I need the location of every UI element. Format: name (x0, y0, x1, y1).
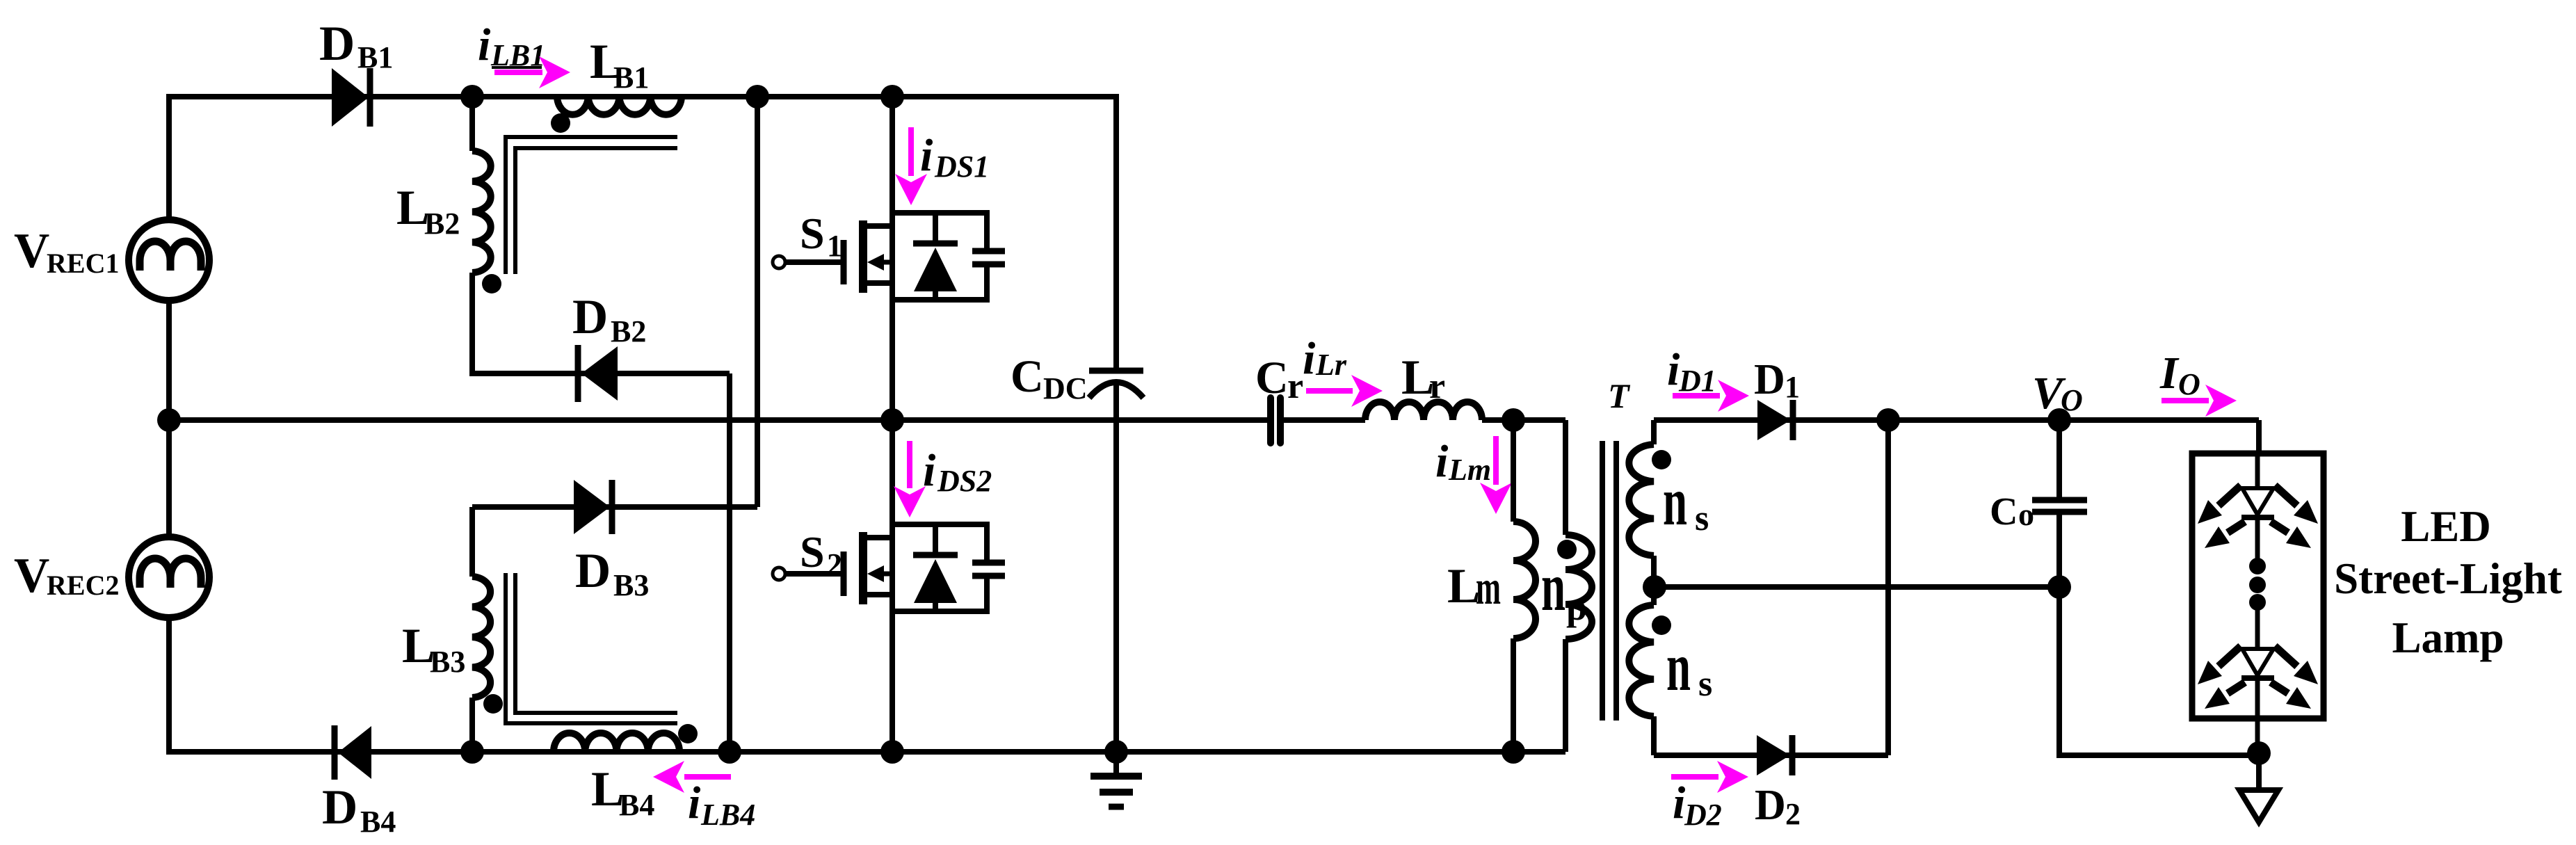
svg-text:D: D (572, 290, 608, 344)
svg-text:B3: B3 (613, 568, 649, 602)
wire top rail (166, 94, 1119, 99)
inductor Lm (1513, 420, 1536, 752)
label iDS2 (923, 445, 992, 498)
current arrow iLB1 (494, 56, 570, 88)
svg-text:C: C (1255, 353, 1289, 403)
svg-text:i: i (478, 19, 491, 70)
transformer primary np (1565, 420, 1592, 752)
S2 gate terminal (773, 568, 785, 580)
wire to LED lamp (2256, 420, 2262, 453)
wire middle rail (169, 417, 1268, 423)
polarity dot ns upper (1652, 450, 1671, 469)
wire CDC lower (1113, 383, 1119, 752)
current arrow iDS2 (894, 441, 926, 517)
capacitor Co (2032, 420, 2259, 755)
svg-text:D1: D1 (1678, 364, 1716, 398)
label LED Street-Light Lamp (2334, 502, 2562, 662)
label LB4 (591, 762, 654, 822)
label DB4 (322, 780, 396, 839)
wire bottom rail (166, 749, 1565, 755)
wire DB3 output up to top rail (755, 97, 760, 507)
node junction Co bottom (2047, 575, 2071, 599)
wire left column lower (166, 620, 172, 755)
wire CDC upper (1113, 97, 1119, 371)
diode DB3 (574, 480, 612, 534)
node junction LB3 bottom rail (460, 740, 484, 764)
wire DB2 output down to bottom rail (727, 373, 732, 752)
label LB3 (402, 619, 465, 679)
svg-text:V: V (14, 549, 49, 603)
svg-text:p: p (1566, 586, 1587, 628)
polarity dot LB1 (551, 113, 570, 133)
LED 2 emission arrows (2198, 646, 2318, 709)
inductor LB4 (554, 733, 679, 752)
inductor LB2 (472, 151, 491, 273)
svg-text:n: n (1541, 548, 1565, 625)
svg-text:2: 2 (1785, 797, 1801, 831)
label CDC (1011, 351, 1088, 405)
wire Cr to Lr (1283, 417, 1365, 423)
label VREC1 (14, 224, 119, 279)
node junction Lr/Lm (1502, 408, 1525, 432)
LED 1 (2241, 488, 2274, 566)
LED 2 (2241, 649, 2274, 753)
svg-text:i: i (688, 778, 701, 828)
transformer core T (1602, 441, 1616, 721)
wire left column upper (166, 94, 172, 218)
svg-text:REC1: REC1 (47, 248, 119, 279)
svg-text:Lr: Lr (1315, 348, 1347, 382)
svg-text:B4: B4 (360, 805, 396, 839)
label ns upper (1663, 462, 1709, 540)
svg-text:O: O (2061, 383, 2083, 417)
S1 drain stub (866, 223, 892, 229)
svg-text:DS2: DS2 (937, 464, 992, 498)
polarity dot LB2 (482, 274, 501, 293)
transformer secondary ns lower (1629, 587, 1654, 755)
polarity dot np (1557, 540, 1577, 559)
svg-text:D: D (1754, 356, 1785, 403)
wire S1 drain (889, 97, 895, 213)
wire DB3 row (472, 504, 757, 510)
diode D1 (1757, 400, 1793, 440)
svg-text:C: C (1011, 351, 1044, 402)
capacitor CDC (1089, 97, 1143, 752)
S2 body diode (933, 524, 938, 611)
wire LB3 branch upper (469, 507, 475, 577)
svg-text:n: n (1663, 462, 1687, 540)
wire D1 D2 join (1885, 420, 1891, 755)
S2 drain stub (866, 535, 892, 540)
label DB3 (575, 544, 649, 602)
label Co (1990, 490, 2034, 533)
node junction Lm bottom rail (1502, 740, 1525, 764)
ground output (2239, 753, 2278, 822)
svg-text:DS1: DS1 (934, 150, 989, 184)
polarity dot LB4 (678, 724, 698, 743)
LED lamp box (2192, 453, 2324, 718)
node junction lamp bottom (2247, 741, 2271, 765)
svg-text:2: 2 (827, 547, 842, 581)
svg-text:i: i (920, 130, 933, 181)
label Lr (1401, 351, 1445, 406)
source VREC1 (129, 220, 209, 300)
wire lamp internal top (2255, 453, 2260, 488)
label S2 (800, 527, 842, 581)
label Cr (1255, 353, 1303, 406)
S1 body arrow (880, 260, 892, 265)
label VREC2 (14, 549, 119, 603)
core of coupled inductor LB3/LB4 (506, 573, 677, 723)
svg-text:C: C (1990, 490, 2018, 533)
node junction sources mid rail (157, 408, 181, 432)
wire center tap (1655, 584, 2059, 590)
svg-text:LB4: LB4 (700, 798, 755, 832)
label ns lower (1666, 628, 1712, 705)
svg-text:S: S (800, 209, 825, 258)
svg-text:o: o (2018, 497, 2034, 532)
svg-text:r: r (1287, 367, 1303, 406)
wire lamp internal middle (2255, 602, 2260, 649)
inductor Lr (1365, 402, 1482, 420)
label Lm (1447, 559, 1501, 615)
label VO (2032, 368, 2083, 419)
svg-text:B1: B1 (613, 61, 649, 95)
label DB2 (572, 290, 646, 348)
S1 channel bar (859, 220, 867, 293)
S1 source stub (866, 280, 892, 286)
current arrow iLB4 (653, 761, 731, 793)
LED string dots (2249, 558, 2266, 611)
node junction S2 source bottom rail (880, 740, 904, 764)
wire LB3 lower (469, 698, 475, 752)
capacitor Cr (1271, 398, 1365, 443)
svg-text:Lm: Lm (1448, 453, 1491, 487)
polarity dot ns lower (1652, 615, 1671, 635)
ground (1090, 752, 1142, 807)
svg-text:REC2: REC2 (47, 570, 119, 601)
current arrow iLm (1480, 436, 1512, 514)
svg-text:B4: B4 (619, 788, 654, 822)
current arrow iD1 (1673, 380, 1749, 412)
label iLr (1303, 333, 1347, 384)
svg-text:B2: B2 (424, 207, 460, 241)
svg-text:V: V (14, 224, 49, 278)
node junction mid-S1S2 (880, 408, 904, 432)
svg-text:B3: B3 (430, 645, 465, 679)
node junction center tap (1643, 575, 1666, 599)
S2 snubber box (892, 524, 987, 611)
wire S2 source (889, 611, 895, 752)
current arrow iDS1 (895, 127, 927, 205)
svg-text:Lamp: Lamp (2392, 613, 2504, 662)
wire secondary top (1654, 417, 2259, 423)
svg-text:1: 1 (1785, 370, 1800, 404)
svg-text:i: i (923, 445, 936, 496)
svg-text:D: D (319, 17, 355, 71)
svg-text:D2: D2 (1684, 798, 1722, 832)
svg-text:m: m (1476, 561, 1501, 615)
wire S2 drain (889, 420, 895, 524)
svg-text:S: S (800, 527, 825, 577)
label np (1541, 548, 1587, 628)
S1 parallel capacitor (972, 251, 1005, 264)
S1 body diode (933, 213, 938, 300)
current arrow iLr (1306, 375, 1383, 407)
S2 source stub (866, 592, 892, 597)
svg-text:D: D (322, 780, 357, 835)
node junction top-DB3 (746, 85, 769, 108)
diode DB1 (332, 68, 370, 127)
S2 parallel capacitor (972, 563, 1005, 576)
inductor LB1 (557, 97, 682, 115)
S1 snubber box (892, 213, 987, 300)
label IO (2159, 348, 2200, 401)
label LB2 (396, 181, 460, 241)
svg-text:O: O (2178, 367, 2200, 401)
svg-text:D: D (575, 544, 611, 598)
S2 body arrow (880, 572, 892, 577)
polarity dot LB3 (483, 694, 503, 714)
node junction D1/D2 (1876, 408, 1900, 432)
node junction ground bottom rail (1104, 740, 1128, 764)
svg-text:T: T (1608, 376, 1631, 415)
label iDS1 (920, 130, 989, 184)
svg-text:s: s (1698, 664, 1712, 704)
wire LB2 to DB2 (472, 273, 730, 373)
wire Lr to node (1482, 417, 1565, 423)
svg-text:Street-Light: Street-Light (2334, 554, 2562, 603)
S2 gate bar (841, 552, 847, 596)
svg-text:LED: LED (2401, 502, 2491, 551)
label iD2 (1673, 778, 1722, 832)
S1 gate terminal (773, 256, 785, 268)
source VREC2 (129, 537, 209, 618)
svg-text:DC: DC (1043, 371, 1088, 405)
diode DB2 (578, 345, 618, 402)
node junction VO (2047, 408, 2071, 432)
label D2 (1755, 782, 1801, 831)
svg-text:i: i (1435, 436, 1449, 487)
label LB1 (590, 35, 649, 95)
diode DB4 (335, 725, 371, 780)
svg-text:D: D (1755, 782, 1786, 829)
node junction top-LB2 (460, 85, 484, 108)
S1 gate bar (841, 240, 847, 284)
inductor LB3 (472, 577, 490, 698)
wire D2 row (1654, 753, 1888, 758)
current arrow IO (2162, 385, 2237, 417)
wire S1 source (889, 300, 895, 420)
svg-text:I: I (2159, 348, 2180, 399)
LED 1 emission arrows (2198, 485, 2318, 548)
wire between sources (166, 303, 172, 535)
svg-text:B1: B1 (357, 40, 393, 74)
S2 channel bar (859, 532, 867, 604)
label iD1 (1667, 344, 1716, 398)
svg-text:r: r (1429, 367, 1445, 406)
core of coupled inductor LB1/LB2 (506, 137, 677, 274)
MOSFET S1 (773, 85, 1005, 420)
current arrow iD2 (1671, 761, 1748, 793)
transformer secondary ns upper (1629, 420, 1654, 587)
node junction top-S1 (880, 85, 904, 108)
svg-text:n: n (1666, 628, 1691, 705)
MOSFET S2 (773, 420, 1005, 752)
label iLB4 (688, 778, 755, 832)
svg-text:B2: B2 (611, 314, 646, 348)
label iLB1 (478, 19, 545, 72)
label DB1 (319, 17, 393, 74)
label iLm (1435, 436, 1491, 487)
svg-text:i: i (1303, 333, 1316, 384)
wire LB2 branch upper (469, 97, 475, 151)
svg-text:s: s (1695, 499, 1709, 538)
svg-text:1: 1 (827, 229, 842, 263)
label D1 (1754, 356, 1800, 404)
diode D2 (1757, 735, 1792, 775)
node junction DB2 bottom rail (718, 740, 741, 764)
label S1 (800, 209, 842, 263)
